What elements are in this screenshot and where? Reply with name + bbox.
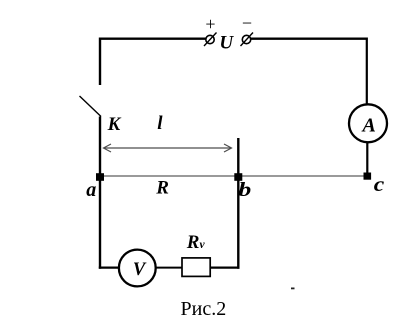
wire left vertical lower — [99, 117, 101, 269]
svg-text:l: l — [157, 113, 163, 134]
wire top-right horizontal — [250, 38, 367, 40]
svg-text:U: U — [219, 33, 234, 54]
wire voltmeter to resistor Rv — [156, 267, 182, 269]
svg-text:c: c — [374, 173, 385, 195]
wire vertical through b — [237, 138, 239, 269]
wire horizontal a-b-c (resistor wire R) — [100, 175, 367, 177]
svg-text:b: b — [238, 179, 251, 201]
ammeter U1 circle A — [349, 104, 387, 142]
svg-text:−: − — [242, 13, 252, 33]
stray dot — [291, 288, 295, 290]
wire ammeter to node c — [366, 143, 368, 177]
switch K blade — [80, 96, 102, 117]
svg-text:A: A — [361, 114, 376, 136]
svg-text:R: R — [155, 177, 169, 198]
measurement arrow for l — [104, 144, 232, 152]
wire a down to voltmeter — [99, 267, 119, 269]
svg-text:Рис.2: Рис.2 — [181, 298, 227, 320]
wire top-left horizontal — [99, 38, 206, 40]
terminal + of source U — [204, 33, 217, 47]
svg-text:Rv: Rv — [186, 232, 206, 253]
wire right vertical upper — [366, 38, 368, 105]
svg-text:a: a — [86, 179, 96, 201]
svg-text:K: K — [107, 114, 122, 135]
wire resistor Rv to b branch — [210, 267, 239, 269]
svg-text:V: V — [133, 260, 147, 280]
node c — [364, 173, 372, 180]
wire left vertical upper — [99, 38, 101, 86]
node b — [234, 173, 242, 181]
svg-text:+: + — [205, 14, 215, 34]
voltmeter circle V — [119, 250, 156, 287]
node a — [96, 173, 104, 181]
resistor Rv box — [182, 258, 210, 277]
terminal - of source U — [241, 33, 254, 47]
